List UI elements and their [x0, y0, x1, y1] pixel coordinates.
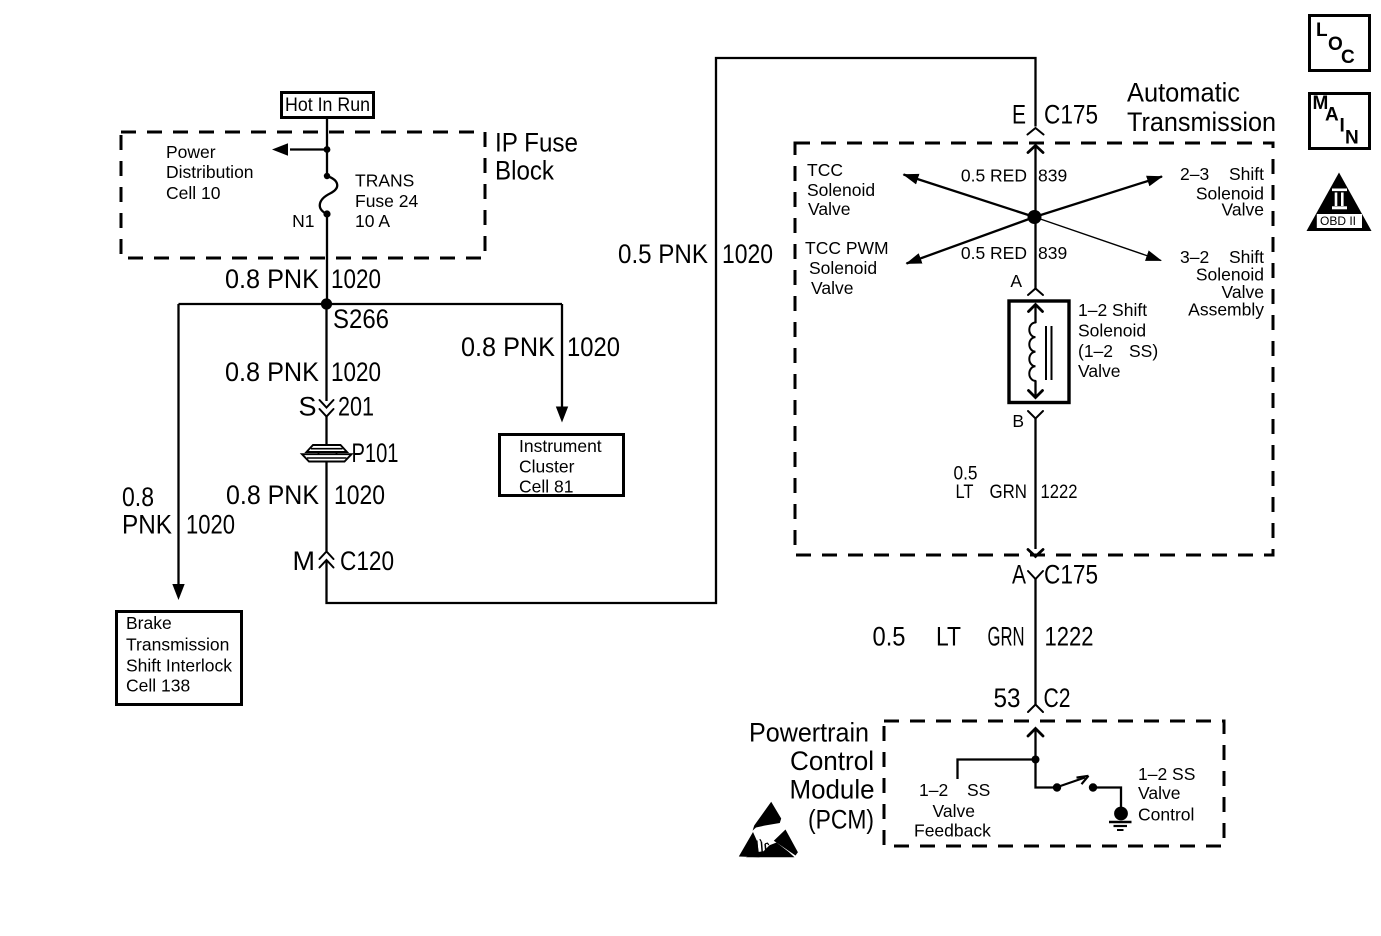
wire arrow entering PCM at 53	[1028, 729, 1043, 760]
svg-text:S: S	[298, 392, 316, 422]
svg-text:1–2 Shift: 1–2 Shift	[1078, 300, 1147, 320]
svg-text:E: E	[1012, 99, 1026, 129]
wire horizontal bus at S266	[179, 303, 563, 305]
svg-text:1020: 1020	[334, 480, 385, 510]
svg-text:Control: Control	[1138, 805, 1194, 825]
svg-text:Distribution: Distribution	[166, 162, 254, 182]
svg-text:1222: 1222	[1045, 622, 1094, 652]
node Brake Transmission Shift Interlock box	[117, 612, 242, 705]
svg-text:Fuse 24: Fuse 24	[355, 191, 418, 211]
label 1-2 SS Valve Control	[1138, 764, 1195, 825]
svg-text:Cluster: Cluster	[519, 457, 575, 477]
PCM dashed enclosure	[884, 721, 1224, 846]
junction solenoid feed node	[1028, 210, 1042, 224]
svg-text:C175: C175	[1044, 99, 1098, 129]
svg-text:SS: SS	[967, 780, 990, 800]
svg-text:Cell 81: Cell 81	[519, 477, 573, 497]
svg-text:Cell 10: Cell 10	[166, 183, 221, 203]
wire from Hot In Run into fuse block	[326, 118, 328, 176]
pin A of 1-2 shift solenoid	[1010, 271, 1043, 295]
svg-text:A: A	[1012, 560, 1026, 590]
svg-text:(1–2: (1–2	[1078, 341, 1113, 361]
svg-text:1222: 1222	[1041, 482, 1078, 503]
node Hot In Run (power feed box)	[282, 93, 374, 118]
grommet P101	[302, 438, 399, 468]
svg-text:Transmission: Transmission	[1127, 107, 1276, 137]
svg-text:A: A	[1325, 104, 1339, 125]
svg-text:Valve: Valve	[1078, 361, 1120, 381]
value label 0.8 PNK 1020 (above S266)	[225, 264, 381, 294]
svg-text:0.5 PNK: 0.5 PNK	[618, 239, 708, 269]
svg-text:TCC PWM: TCC PWM	[805, 238, 889, 258]
svg-text:0.8 PNK: 0.8 PNK	[225, 357, 319, 387]
svg-text:Hot In Run: Hot In Run	[285, 95, 370, 116]
svg-text:Valve: Valve	[1222, 200, 1264, 220]
svg-text:Valve: Valve	[933, 801, 975, 821]
value label 0.8 PNK 1020 (below S266)	[225, 357, 381, 387]
wire C120 long run to transmission	[327, 58, 1036, 603]
svg-text:1–2 SS: 1–2 SS	[1138, 764, 1195, 784]
svg-text:GRN: GRN	[990, 482, 1028, 503]
connector C2 pin 53	[994, 683, 1071, 713]
svg-text:1020: 1020	[331, 264, 381, 294]
node Instrument Cluster box	[500, 435, 624, 497]
svg-text:N: N	[1345, 128, 1359, 149]
svg-text:TRANS: TRANS	[355, 171, 414, 191]
label 3-2 Shift Solenoid Valve Assembly	[1180, 247, 1264, 320]
wire junction to switch pole	[1036, 760, 1055, 788]
svg-text:C: C	[1341, 47, 1355, 68]
svg-text:SS): SS)	[1129, 341, 1158, 361]
svg-text:Shift Interlock: Shift Interlock	[126, 656, 232, 676]
wire throw contact to ground	[1093, 788, 1121, 808]
svg-text:Cell 138: Cell 138	[126, 676, 190, 696]
wire arrow to TCC Solenoid Valve	[904, 175, 1035, 218]
value label 0.5 RED 839 (upper)	[961, 166, 1067, 186]
svg-text:C175: C175	[1044, 560, 1098, 590]
label Powertrain Control Module (PCM)	[749, 717, 875, 834]
wire arrow to Power Distribution	[272, 143, 327, 156]
value label 0.8 PNK 1020 (left branch)	[122, 482, 235, 540]
connector S201 (double chevron)	[298, 392, 374, 422]
connector C175 pin A	[1012, 560, 1098, 590]
wire to 1-2 SS Valve Feedback	[958, 760, 1036, 780]
icon LOC	[1310, 16, 1370, 71]
junction to power distribution arrow	[324, 146, 331, 153]
svg-text:Power: Power	[166, 142, 216, 162]
svg-text:Solenoid: Solenoid	[1078, 321, 1146, 341]
solenoid L1 1-2 Shift Solenoid box	[1009, 301, 1069, 403]
svg-text:Feedback: Feedback	[914, 821, 991, 841]
svg-text:TCC: TCC	[807, 160, 843, 180]
svg-text:Automatic: Automatic	[1127, 78, 1240, 108]
label TCC Solenoid Valve	[807, 160, 875, 219]
svg-text:839: 839	[1038, 243, 1067, 263]
wire S201 to grommet P101	[325, 417, 327, 446]
svg-text:839: 839	[1038, 166, 1067, 186]
label TCC PWM Solenoid Valve	[805, 238, 889, 298]
svg-text:0.8: 0.8	[122, 482, 154, 512]
ground G1	[1109, 807, 1132, 830]
svg-text:P101: P101	[352, 438, 399, 468]
svg-text:(PCM): (PCM)	[808, 804, 874, 834]
pin B of 1-2 shift solenoid	[1012, 411, 1043, 431]
svg-text:Solenoid: Solenoid	[807, 180, 875, 200]
fuse F24 TRANS Fuse 24 10A	[320, 173, 337, 218]
wire arrow to 3-2 Shift Solenoid Valve Assembly	[1035, 217, 1162, 261]
svg-text:Valve: Valve	[808, 199, 850, 219]
connector C175 pin E	[1012, 99, 1098, 134]
svg-text:1020: 1020	[567, 332, 620, 362]
value label TRANS Fuse 24 10 A	[355, 171, 418, 232]
junction inside PCM	[1032, 756, 1040, 764]
svg-text:Control: Control	[790, 746, 874, 776]
label Automatic Transmission	[1127, 78, 1276, 138]
value label 0.5 PNK 1020 (long run)	[618, 239, 773, 269]
label 1-2 Shift Solenoid (1-2 SS) Valve	[1078, 300, 1158, 381]
wire solenoid B down to C175	[1034, 419, 1036, 550]
svg-text:B: B	[1012, 411, 1024, 431]
svg-text:0.8 PNK: 0.8 PNK	[461, 332, 555, 362]
splice S266 junction	[321, 298, 332, 309]
switch blade SW1	[1058, 776, 1089, 787]
icon MAIN	[1310, 93, 1370, 149]
svg-text:Transmission: Transmission	[126, 635, 229, 655]
svg-text:1020: 1020	[186, 510, 235, 540]
svg-text:Valve: Valve	[811, 278, 853, 298]
svg-text:A: A	[1010, 271, 1022, 291]
IP Fuse Block dashed enclosure	[121, 132, 485, 258]
value label 0.8 PNK 1020 (right branch)	[461, 332, 620, 362]
label 1-2 SS Valve Feedback	[914, 780, 991, 841]
value label 0.5 LT GRN 1222 (inside transmission)	[954, 464, 1078, 504]
svg-text:0.5 RED: 0.5 RED	[961, 243, 1027, 263]
Automatic Transmission dashed enclosure	[795, 143, 1273, 555]
wire C175 to PCM connector C2	[1034, 579, 1036, 705]
svg-text:Solenoid: Solenoid	[809, 258, 877, 278]
svg-text:53: 53	[994, 683, 1021, 713]
svg-text:Assembly: Assembly	[1188, 300, 1264, 320]
svg-text:GRN: GRN	[988, 622, 1025, 652]
svg-text:0.5: 0.5	[873, 622, 906, 652]
label 2-3 Shift Solenoid Valve	[1180, 164, 1264, 220]
svg-text:Brake: Brake	[126, 613, 172, 633]
svg-text:2–3: 2–3	[1180, 164, 1209, 184]
svg-text:1020: 1020	[722, 239, 773, 269]
wire center branch S266 to S201	[325, 304, 327, 401]
svg-text:Instrument: Instrument	[519, 436, 602, 456]
svg-text:C120: C120	[340, 546, 394, 576]
icon OBD II	[1307, 173, 1372, 232]
wire arrow to 2-3 Shift Solenoid Valve	[1035, 177, 1163, 218]
svg-text:L: L	[1316, 20, 1328, 41]
svg-text:Module: Module	[790, 774, 875, 804]
svg-text:Powertrain: Powertrain	[749, 717, 869, 747]
svg-text:1020: 1020	[331, 357, 381, 387]
svg-text:201: 201	[338, 392, 374, 422]
svg-text:PNK: PNK	[122, 510, 172, 540]
svg-text:Valve: Valve	[1138, 783, 1180, 803]
svg-text:M: M	[293, 546, 316, 576]
svg-text:I: I	[1340, 116, 1345, 137]
ESD sensitive device symbol	[739, 802, 798, 858]
label IP Fuse Block	[495, 128, 578, 186]
svg-text:Block: Block	[495, 156, 554, 186]
switch throw contact	[1089, 783, 1097, 791]
value label 0.5 LT GRN 1222	[873, 622, 1094, 652]
svg-text:0.8 PNK: 0.8 PNK	[225, 264, 319, 294]
svg-text:S266: S266	[333, 304, 389, 334]
wire arrow to TCC PWM Solenoid Valve	[907, 217, 1035, 264]
svg-text:10 A: 10 A	[355, 211, 390, 231]
svg-text:LT: LT	[936, 622, 961, 652]
label Power Distribution Cell 10	[166, 142, 254, 203]
svg-text:OBD II: OBD II	[1320, 214, 1356, 228]
wire left branch down to Brake box	[172, 304, 184, 600]
wire arrow entering transmission at E	[1028, 146, 1043, 289]
value label 0.5 RED 839 (lower)	[961, 243, 1067, 263]
wire arrow leaving transmission	[1028, 550, 1043, 557]
svg-text:LT: LT	[956, 482, 974, 503]
svg-text:1–2: 1–2	[919, 780, 948, 800]
svg-text:0.5 RED: 0.5 RED	[961, 166, 1027, 186]
wire fuse to splice S266	[326, 214, 328, 304]
svg-text:0.8 PNK: 0.8 PNK	[226, 480, 319, 510]
wire right branch S266 to Instrument Cluster	[556, 304, 568, 423]
switch pole contact	[1053, 783, 1061, 791]
svg-text:C2: C2	[1044, 683, 1071, 713]
wire P101 to connector C120	[325, 461, 327, 551]
svg-text:IP Fuse: IP Fuse	[495, 128, 578, 158]
value label 0.8 PNK 1020 (above C120)	[226, 480, 385, 510]
connector C120 pin M (double chevron up)	[293, 546, 395, 576]
svg-text:N1: N1	[292, 211, 314, 231]
svg-text:Shift: Shift	[1229, 164, 1264, 184]
